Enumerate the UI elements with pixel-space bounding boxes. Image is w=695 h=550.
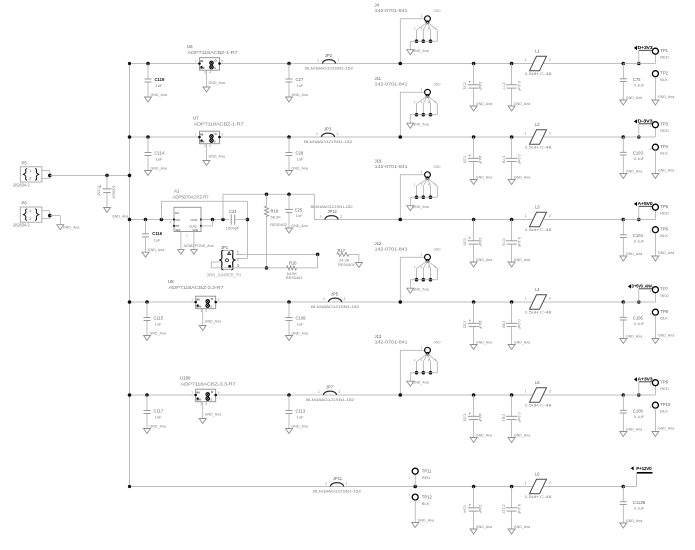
svg-text:2: 2 — [549, 214, 551, 218]
svg-text:1: 1 — [650, 207, 652, 211]
svg-text:J10: J10 — [375, 159, 382, 164]
svg-text:2: 2 — [339, 390, 341, 394]
svg-text:1: 1 — [320, 215, 322, 219]
svg-text:GND_Ana: GND_Ana — [209, 81, 225, 85]
svg-text:U100: U100 — [180, 376, 191, 381]
svg-text:JP11: JP11 — [333, 476, 343, 481]
svg-text:1uF: 1uF — [156, 156, 163, 161]
svg-text:GND_Ana: GND_Ana — [292, 166, 308, 170]
svg-text:GND_Ana: GND_Ana — [412, 123, 428, 127]
svg-text:EN: EN — [175, 211, 179, 215]
svg-text:GND_Ana: GND_Ana — [205, 320, 221, 324]
svg-text:R18: R18 — [271, 209, 279, 214]
svg-text:1.5uH C-48: 1.5uH C-48 — [525, 494, 552, 499]
svg-text:GND_Ana: GND_Ana — [476, 433, 492, 437]
svg-text:56.2K: 56.2K — [271, 214, 282, 219]
svg-text:C81: C81 — [501, 414, 506, 422]
svg-text:TP8: TP8 — [660, 309, 668, 314]
svg-text:BLK: BLK — [422, 501, 430, 506]
svg-text:1: 1 — [317, 59, 319, 63]
svg-text:RED: RED — [660, 293, 669, 298]
svg-text:GND_Ana: GND_Ana — [626, 334, 642, 338]
svg-text:0.1uF: 0.1uF — [517, 504, 522, 515]
svg-text:1: 1 — [421, 253, 423, 257]
svg-text:C75: C75 — [633, 77, 641, 82]
svg-text:IN: IN — [197, 390, 200, 394]
svg-text:GND_Ana: GND_Ana — [658, 333, 674, 337]
svg-text:P5: P5 — [22, 160, 28, 165]
svg-text:1.5uH C-48: 1.5uH C-48 — [525, 227, 552, 232]
svg-text:J4: J4 — [375, 3, 380, 8]
svg-text:4: 4 — [209, 70, 211, 74]
svg-text:P+12V0: P+12V0 — [636, 466, 652, 471]
svg-text:GND_Ana: GND_Ana — [291, 224, 307, 228]
svg-text:1: 1 — [421, 88, 423, 92]
svg-text:U6: U6 — [187, 44, 193, 49]
svg-text:GND_Ana: GND_Ana — [150, 424, 166, 428]
svg-text:RES0402: RES0402 — [338, 262, 355, 267]
svg-text:0.1uF: 0.1uF — [517, 154, 522, 165]
svg-text:L5: L5 — [535, 380, 540, 385]
svg-text:VIN: VIN — [175, 218, 180, 222]
svg-text:TP5: TP5 — [660, 204, 668, 209]
svg-text:TP7: TP7 — [660, 286, 668, 291]
svg-text:2: 2 — [549, 58, 551, 62]
svg-text:2: 2 — [549, 297, 551, 301]
svg-text:GND_Ana: GND_Ana — [626, 519, 642, 523]
svg-text:AGND PGND_Ana: AGND PGND_Ana — [184, 244, 214, 248]
svg-text:S: S — [210, 304, 212, 308]
svg-text:2: 2 — [549, 132, 551, 136]
svg-text:142-0701-841: 142-0701-841 — [375, 82, 409, 87]
svg-text:1: 1 — [650, 382, 652, 386]
svg-text:GND_Ana: GND_Ana — [514, 175, 530, 179]
svg-text:GND_Ana: GND_Ana — [209, 155, 225, 159]
svg-text:C109: C109 — [296, 316, 307, 321]
svg-text:1: 1 — [29, 169, 31, 173]
svg-text:BLK: BLK — [660, 409, 668, 414]
svg-text:2: 2 — [338, 59, 340, 63]
svg-text:1uF: 1uF — [156, 83, 163, 88]
svg-text:C104: C104 — [633, 233, 644, 238]
svg-text:GND_Ana: GND_Ana — [658, 95, 674, 99]
svg-text:C106: C106 — [633, 409, 644, 414]
svg-text:RED: RED — [660, 128, 669, 133]
svg-text:1000uF: 1000uF — [111, 185, 116, 199]
svg-text:1: 1 — [525, 481, 527, 485]
svg-text:GND: GND — [434, 165, 442, 169]
svg-text:GND_Ana: GND_Ana — [626, 252, 642, 256]
svg-text:1: 1 — [650, 405, 652, 409]
svg-text:BLM18AG121SN1-152: BLM18AG121SN1-152 — [313, 489, 361, 494]
svg-text:GND_Ana: GND_Ana — [514, 102, 530, 106]
svg-text:GND_Ana: GND_Ana — [658, 168, 674, 172]
svg-text:1: 1 — [650, 147, 652, 151]
svg-text:GND_Ana: GND_Ana — [476, 175, 492, 179]
svg-text:JP7: JP7 — [326, 385, 334, 390]
svg-text:JP3: JP3 — [324, 127, 332, 132]
svg-text:GND_Ana: GND_Ana — [63, 226, 79, 230]
svg-text:TP10: TP10 — [660, 402, 671, 407]
svg-text:GND_Ana: GND_Ana — [412, 49, 428, 53]
svg-text:282834-2: 282834-2 — [13, 223, 30, 228]
svg-text:TP11: TP11 — [422, 469, 432, 474]
svg-text:1.5uH C-48: 1.5uH C-48 — [525, 403, 552, 408]
svg-text:GND_Ana: GND_Ana — [626, 96, 642, 100]
svg-text:3: 3 — [237, 264, 239, 268]
svg-text:0.1uF: 0.1uF — [517, 81, 522, 92]
svg-text:GND_Ana: GND_Ana — [658, 426, 674, 430]
svg-text:L4: L4 — [535, 287, 540, 292]
svg-text:GND_Ana: GND_Ana — [626, 169, 642, 173]
svg-text:GND_Ana: GND_Ana — [476, 258, 492, 262]
svg-text:2: 2 — [29, 177, 31, 181]
svg-text:GND_Ana: GND_Ana — [418, 518, 434, 522]
svg-text:GND_Ana: GND_Ana — [151, 166, 167, 170]
svg-text:1: 1 — [316, 132, 318, 136]
svg-text:4: 4 — [205, 309, 207, 313]
svg-text:J11: J11 — [375, 76, 382, 81]
svg-text:3: 3 — [200, 402, 202, 406]
svg-text:IN: IN — [200, 59, 203, 63]
svg-text:1: 1 — [421, 14, 423, 18]
svg-text:C115: C115 — [154, 316, 164, 321]
svg-text:0.1uF: 0.1uF — [634, 414, 645, 419]
svg-text:GND: GND — [434, 83, 442, 87]
svg-text:JP2: JP2 — [325, 53, 333, 58]
svg-text:GND_Ana: GND_Ana — [112, 215, 128, 219]
svg-text:1500pF: 1500pF — [226, 225, 240, 230]
svg-text:GND_Ana: GND_Ana — [476, 525, 492, 529]
svg-text:L6: L6 — [535, 472, 540, 477]
svg-text:C79: C79 — [501, 238, 506, 246]
svg-text:1uF: 1uF — [297, 156, 304, 161]
svg-text:1: 1 — [29, 209, 31, 213]
svg-text:GND_Ana: GND_Ana — [476, 340, 492, 344]
svg-text:GND: GND — [434, 9, 442, 13]
svg-text:1: 1 — [650, 289, 652, 293]
svg-text:OUT2: OUT2 — [190, 224, 198, 228]
svg-text:RED: RED — [660, 54, 669, 59]
svg-text:IN: IN — [200, 132, 203, 136]
svg-text:GND_Ana: GND_Ana — [412, 381, 428, 385]
svg-text:JP1: JP1 — [221, 245, 229, 250]
svg-text:282834-2: 282834-2 — [13, 183, 30, 188]
svg-text:4: 4 — [209, 144, 211, 148]
svg-text:C105: C105 — [633, 316, 644, 321]
svg-text:2: 2 — [237, 257, 239, 261]
svg-text:GND_Ana: GND_Ana — [151, 93, 167, 97]
svg-text:1: 1 — [421, 346, 423, 350]
svg-text:0.1uF: 0.1uF — [517, 319, 522, 330]
svg-text:BLK: BLK — [660, 233, 668, 238]
svg-text:C150: C150 — [97, 186, 102, 196]
svg-text:2: 2 — [340, 215, 342, 219]
svg-text:C117: C117 — [154, 409, 164, 414]
svg-text:C80: C80 — [501, 321, 506, 329]
svg-text:C113B: C113B — [633, 500, 646, 505]
svg-text:TP6: TP6 — [660, 227, 668, 232]
svg-text:1: 1 — [408, 476, 410, 480]
svg-text:1uF: 1uF — [155, 414, 162, 419]
svg-text:0.1uF: 0.1uF — [634, 238, 645, 243]
svg-text:1: 1 — [650, 51, 652, 55]
svg-text:GND_Ana: GND_Ana — [292, 331, 308, 335]
svg-text:L2: L2 — [535, 122, 540, 127]
svg-text:1: 1 — [525, 390, 527, 394]
svg-text:BLM18AG121SN1-152: BLM18AG121SN1-152 — [305, 66, 353, 71]
svg-text:0.1uF: 0.1uF — [634, 321, 645, 326]
svg-text:1: 1 — [525, 58, 527, 62]
svg-text:BLK: BLK — [660, 151, 668, 156]
svg-text:GND_Ana: GND_Ana — [150, 331, 166, 335]
svg-text:10uF: 10uF — [478, 413, 483, 423]
svg-text:2: 2 — [344, 297, 346, 301]
svg-text:RES0402: RES0402 — [270, 222, 287, 227]
svg-text:L3: L3 — [535, 205, 540, 210]
svg-text:1: 1 — [650, 312, 652, 316]
svg-text:1: 1 — [323, 297, 325, 301]
svg-text:C25: C25 — [295, 207, 303, 212]
svg-text:BLM18AG121SN1-152: BLM18AG121SN1-152 — [304, 139, 352, 144]
svg-text:1uF: 1uF — [297, 321, 304, 326]
svg-text:C77: C77 — [501, 82, 506, 90]
svg-text:C112: C112 — [501, 504, 506, 514]
svg-text:C27: C27 — [296, 77, 304, 82]
svg-text:C31: C31 — [462, 82, 467, 90]
svg-text:2: 2 — [549, 390, 551, 394]
svg-text:C78: C78 — [501, 156, 506, 164]
svg-text:C32: C32 — [462, 321, 467, 329]
svg-text:1: 1 — [650, 124, 652, 128]
svg-text:TP12: TP12 — [422, 495, 433, 500]
svg-text:1uF: 1uF — [154, 238, 161, 243]
svg-text:SE0: SE0 — [175, 228, 181, 232]
svg-text:1: 1 — [421, 170, 423, 174]
svg-text:BLM18AG121SN1-152: BLM18AG121SN1-152 — [306, 397, 354, 402]
svg-text:GND_Ana: GND_Ana — [412, 205, 428, 209]
svg-text:TP2: TP2 — [660, 71, 668, 76]
svg-text:10uF: 10uF — [478, 320, 483, 330]
svg-text:1: 1 — [525, 132, 527, 136]
svg-text:GND_Ana: GND_Ana — [476, 102, 492, 106]
svg-text:TP1: TP1 — [660, 48, 668, 53]
svg-text:1.5uH C-48: 1.5uH C-48 — [525, 310, 552, 315]
svg-text:0.1uF: 0.1uF — [517, 237, 522, 248]
svg-text:10uF: 10uF — [478, 504, 483, 514]
svg-text:GND_Ana: GND_Ana — [626, 427, 642, 431]
svg-text:R17: R17 — [338, 248, 346, 253]
svg-text:1: 1 — [237, 251, 239, 255]
svg-text:GND_Ana: GND_Ana — [292, 424, 308, 428]
svg-text:C103: C103 — [633, 151, 644, 156]
svg-text:S: S — [214, 66, 216, 70]
svg-text:142-0701-841: 142-0701-841 — [375, 164, 409, 169]
svg-text:2: 2 — [29, 217, 31, 221]
svg-text:2: 2 — [346, 482, 348, 486]
svg-text:ADP7118ACBZ-3.3-R7: ADP7118ACBZ-3.3-R7 — [169, 285, 225, 290]
svg-text:C30: C30 — [462, 238, 467, 246]
svg-text:S: S — [214, 139, 216, 143]
svg-text:A1: A1 — [174, 188, 180, 193]
svg-text:RES0402: RES0402 — [286, 275, 303, 280]
svg-text:GND_Ana: GND_Ana — [514, 258, 530, 262]
svg-text:BLM18AG121SN1-152: BLM18AG121SN1-152 — [311, 304, 359, 309]
svg-text:GND: GND — [434, 248, 442, 252]
svg-text:3: 3 — [204, 144, 206, 148]
svg-text:RED: RED — [660, 210, 669, 215]
svg-text:2: 2 — [549, 481, 551, 485]
svg-text:142-0701-841: 142-0701-841 — [375, 8, 409, 13]
svg-text:1: 1 — [525, 297, 527, 301]
svg-text:RED: RED — [422, 475, 431, 480]
svg-text:TP3: TP3 — [660, 121, 668, 126]
svg-text:1: 1 — [325, 482, 327, 486]
svg-text:GND_Ana: GND_Ana — [292, 93, 308, 97]
svg-text:IN1: IN1 — [175, 224, 180, 228]
svg-text:4: 4 — [205, 402, 207, 406]
svg-text:R16: R16 — [289, 261, 297, 266]
svg-text:GND_Ana: GND_Ana — [205, 413, 221, 417]
svg-text:GND_Ana: GND_Ana — [514, 433, 530, 437]
svg-text:1.5uH C-48: 1.5uH C-48 — [525, 145, 552, 150]
svg-text:L1: L1 — [535, 49, 540, 54]
svg-text:1uF: 1uF — [297, 414, 304, 419]
svg-text:GND_Ana: GND_Ana — [658, 251, 674, 255]
svg-text:C34: C34 — [462, 505, 467, 513]
svg-text:1: 1 — [650, 230, 652, 234]
svg-text:C33: C33 — [462, 414, 467, 422]
svg-text:JP12: JP12 — [328, 209, 338, 214]
svg-text:1: 1 — [318, 390, 320, 394]
svg-text:1uF: 1uF — [297, 83, 304, 88]
svg-text:1uF: 1uF — [155, 321, 162, 326]
svg-text:GND_Ana: GND_Ana — [514, 525, 530, 529]
svg-text:C28: C28 — [296, 151, 304, 156]
svg-text:S: S — [210, 397, 212, 401]
svg-text:RED: RED — [660, 386, 669, 391]
svg-text:3PIN_JUMPER_TH: 3PIN_JUMPER_TH — [207, 272, 242, 277]
svg-text:OUT1: OUT1 — [191, 218, 199, 222]
svg-text:C29: C29 — [462, 156, 467, 164]
svg-text:1.5uH C-48: 1.5uH C-48 — [525, 71, 552, 76]
svg-text:GND_Ana: GND_Ana — [412, 288, 428, 292]
svg-text:1: 1 — [408, 493, 410, 497]
svg-text:C24: C24 — [229, 209, 237, 214]
svg-text:3: 3 — [200, 309, 202, 313]
svg-text:C119: C119 — [155, 77, 165, 82]
svg-text:0.1uF: 0.1uF — [517, 412, 522, 423]
svg-text:JP5: JP5 — [331, 292, 339, 297]
svg-text:10uF: 10uF — [478, 155, 483, 165]
svg-text:GND_Ana: GND_Ana — [514, 340, 530, 344]
svg-text:GN2: GN2 — [193, 228, 199, 232]
svg-text:GND_Ana: GND_Ana — [148, 248, 164, 252]
svg-text:142-0701-841: 142-0701-841 — [375, 247, 409, 252]
svg-text:J12: J12 — [375, 241, 382, 246]
svg-text:IN: IN — [197, 297, 200, 301]
svg-text:ADP7118ACBZ-3.3-R7: ADP7118ACBZ-3.3-R7 — [181, 382, 237, 387]
svg-text:ADP5070ACPZ-R7: ADP5070ACPZ-R7 — [173, 194, 210, 199]
svg-text:ADP7118ACBZ-1-R7: ADP7118ACBZ-1-R7 — [188, 50, 239, 55]
svg-text:1uF: 1uF — [296, 213, 303, 218]
svg-text:C114: C114 — [155, 151, 165, 156]
svg-text:BLK: BLK — [660, 77, 668, 82]
svg-text:C113: C113 — [296, 409, 306, 414]
svg-text:3: 3 — [204, 70, 206, 74]
svg-text:ADP7118ACBZ-1-R7: ADP7118ACBZ-1-R7 — [194, 122, 245, 127]
svg-text:1: 1 — [186, 234, 188, 238]
svg-text:U7: U7 — [193, 116, 199, 121]
svg-text:C116: C116 — [152, 231, 162, 236]
svg-text:BLK: BLK — [660, 316, 668, 321]
svg-text:1: 1 — [650, 74, 652, 78]
svg-text:10uF: 10uF — [478, 237, 483, 247]
svg-text:TP4: TP4 — [660, 144, 668, 149]
svg-text:10uF: 10uF — [478, 81, 483, 91]
svg-text:U8: U8 — [168, 279, 174, 284]
svg-text:GND: GND — [434, 341, 442, 345]
svg-text:0.1uF: 0.1uF — [634, 156, 645, 161]
svg-text:TP9: TP9 — [660, 379, 668, 384]
svg-text:0.1uF: 0.1uF — [634, 505, 645, 510]
svg-text:1: 1 — [525, 214, 527, 218]
svg-text:J13: J13 — [375, 334, 382, 339]
svg-text:P6: P6 — [22, 201, 28, 206]
svg-text:0.1uF: 0.1uF — [634, 82, 645, 87]
svg-text:2: 2 — [337, 132, 339, 136]
svg-text:142-0701-841: 142-0701-841 — [375, 340, 409, 345]
